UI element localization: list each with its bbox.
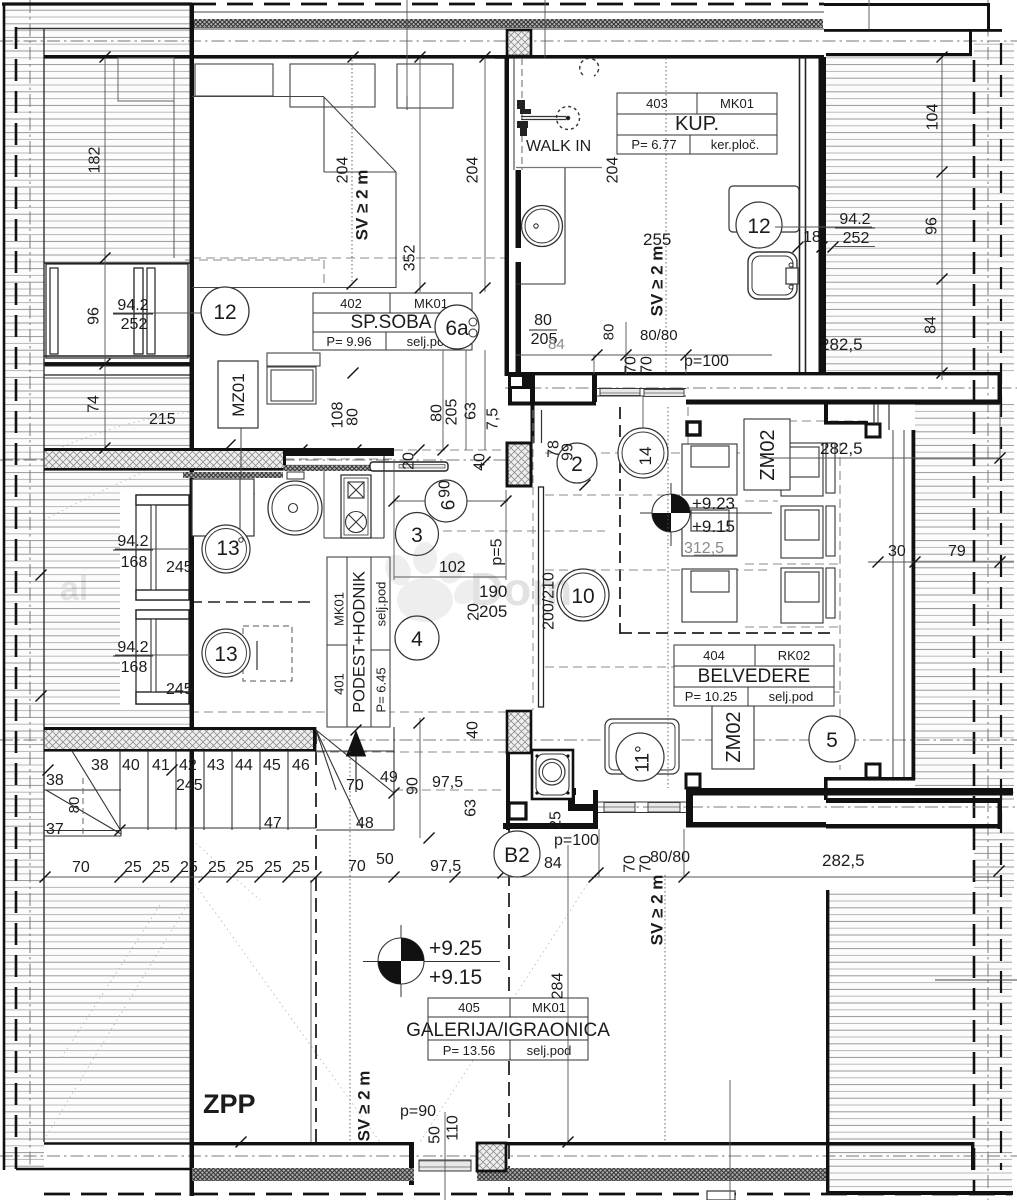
svg-text:84: 84 <box>922 316 939 334</box>
svg-text:45: 45 <box>263 757 281 774</box>
svg-text:11°: 11° <box>633 745 654 772</box>
svg-text:40: 40 <box>471 453 488 471</box>
svg-text:352: 352 <box>401 245 418 272</box>
svg-text:P= 9.96: P= 9.96 <box>326 334 371 349</box>
svg-text:SV ≥ 2 m: SV ≥ 2 m <box>647 875 666 946</box>
svg-text:48: 48 <box>356 815 374 832</box>
svg-text:40: 40 <box>122 757 140 774</box>
svg-text:P= 10.25: P= 10.25 <box>685 689 737 704</box>
svg-text:25: 25 <box>124 859 142 876</box>
svg-text:204: 204 <box>334 157 351 184</box>
svg-text:13: 13 <box>214 643 237 666</box>
svg-text:GALERIJA/IGRAONICA: GALERIJA/IGRAONICA <box>406 1020 610 1041</box>
svg-text:10: 10 <box>571 585 594 608</box>
svg-text:204: 204 <box>604 157 621 184</box>
svg-text:84: 84 <box>548 336 565 353</box>
svg-text:90: 90 <box>404 777 421 795</box>
svg-text:20: 20 <box>400 452 417 470</box>
svg-text:70: 70 <box>638 356 655 374</box>
svg-text:282,5: 282,5 <box>822 851 865 870</box>
svg-text:168: 168 <box>121 659 148 676</box>
svg-text:P= 13.56: P= 13.56 <box>443 1043 495 1058</box>
svg-text:245: 245 <box>166 559 193 576</box>
svg-text:215: 215 <box>149 411 176 428</box>
svg-text:404: 404 <box>703 648 725 663</box>
svg-text:80/80: 80/80 <box>650 849 690 866</box>
svg-text:63: 63 <box>462 799 479 817</box>
svg-text:110: 110 <box>444 1115 461 1141</box>
svg-text:205: 205 <box>443 399 460 426</box>
svg-text:252: 252 <box>121 316 148 333</box>
svg-text:245: 245 <box>166 681 193 698</box>
svg-text:182: 182 <box>86 147 103 174</box>
svg-text:14: 14 <box>636 447 655 466</box>
svg-text:80: 80 <box>66 797 83 814</box>
svg-text:25: 25 <box>292 859 310 876</box>
svg-text:402: 402 <box>340 296 362 311</box>
svg-text:282,5: 282,5 <box>820 335 863 354</box>
svg-text:5: 5 <box>826 729 838 752</box>
svg-text:7,5: 7,5 <box>484 408 501 430</box>
svg-text:25: 25 <box>264 859 282 876</box>
svg-text:BELVEDERE: BELVEDERE <box>698 666 811 687</box>
svg-text:401: 401 <box>331 673 346 695</box>
svg-text:80: 80 <box>600 324 617 341</box>
svg-text:+9.23: +9.23 <box>692 494 735 513</box>
svg-text:SP.SOBA: SP.SOBA <box>351 312 432 333</box>
svg-text:p=100: p=100 <box>554 832 599 849</box>
svg-text:90: 90 <box>436 480 453 498</box>
svg-text:ZM02: ZM02 <box>723 711 745 762</box>
svg-text:25: 25 <box>180 859 198 876</box>
svg-text:43: 43 <box>207 757 225 774</box>
svg-text:MK01: MK01 <box>414 296 448 311</box>
svg-text:P= 6.45: P= 6.45 <box>373 667 388 712</box>
svg-text:70: 70 <box>346 777 364 794</box>
svg-text:SV ≥ 2 m: SV ≥ 2 m <box>647 246 666 317</box>
svg-text:284: 284 <box>549 973 566 1000</box>
svg-text:p=5: p=5 <box>488 538 505 565</box>
svg-text:70: 70 <box>348 858 366 875</box>
svg-text:80: 80 <box>344 408 361 426</box>
svg-text:MZ01: MZ01 <box>229 373 248 416</box>
svg-text:ZM02: ZM02 <box>757 429 779 480</box>
svg-text:6a: 6a <box>445 317 469 340</box>
svg-text:190: 190 <box>479 582 507 601</box>
svg-text:SV ≥ 2 m: SV ≥ 2 m <box>352 170 371 241</box>
svg-text:selj.pod: selj.pod <box>527 1043 572 1058</box>
svg-text:40: 40 <box>464 721 481 739</box>
svg-text:12: 12 <box>213 301 236 324</box>
svg-text:47: 47 <box>264 815 282 832</box>
svg-text:74: 74 <box>85 395 102 413</box>
svg-text:50: 50 <box>426 1126 443 1144</box>
svg-text:50: 50 <box>376 851 394 868</box>
svg-text:al: al <box>60 570 88 608</box>
svg-text:MK01: MK01 <box>331 592 346 626</box>
svg-text:94.2: 94.2 <box>117 297 148 314</box>
svg-text:30: 30 <box>888 543 906 560</box>
svg-text:104: 104 <box>924 104 941 131</box>
svg-text:13: 13 <box>216 537 239 560</box>
svg-text:PODEST+HODNIK: PODEST+HODNIK <box>351 571 369 713</box>
svg-text:42: 42 <box>179 757 197 774</box>
svg-text:96: 96 <box>85 307 102 325</box>
svg-text:37: 37 <box>46 821 64 838</box>
svg-text:38: 38 <box>46 772 64 789</box>
svg-text:18: 18 <box>803 229 821 246</box>
svg-text:252: 252 <box>843 230 870 247</box>
svg-text:79: 79 <box>948 543 966 560</box>
svg-text:38: 38 <box>91 757 109 774</box>
svg-text:+9.15: +9.15 <box>692 517 735 536</box>
svg-text:+9.25: +9.25 <box>429 937 482 960</box>
svg-text:ZPP: ZPP <box>203 1089 256 1119</box>
svg-text:204: 204 <box>464 157 481 184</box>
svg-text:25: 25 <box>208 859 226 876</box>
svg-text:ker.ploč.: ker.ploč. <box>711 137 759 152</box>
svg-text:80/80: 80/80 <box>640 327 678 344</box>
svg-text:p=90: p=90 <box>400 1103 436 1120</box>
svg-text:41: 41 <box>152 757 170 774</box>
svg-text:405: 405 <box>458 1000 480 1015</box>
svg-text:6: 6 <box>439 500 460 511</box>
svg-text:4: 4 <box>411 628 423 651</box>
svg-text:MK01: MK01 <box>532 1000 566 1015</box>
svg-text:selj.pod: selj.pod <box>769 689 814 704</box>
svg-text:70: 70 <box>621 855 638 873</box>
svg-text:P= 6.77: P= 6.77 <box>631 137 676 152</box>
svg-text:97,5: 97,5 <box>432 774 463 791</box>
svg-text:p=100: p=100 <box>684 353 729 370</box>
svg-text:94.2: 94.2 <box>839 211 870 228</box>
svg-text:245: 245 <box>176 777 203 794</box>
svg-text:312,5: 312,5 <box>684 540 724 557</box>
svg-text:70: 70 <box>622 356 639 374</box>
svg-text:KUP.: KUP. <box>675 113 719 135</box>
svg-text:+9.15: +9.15 <box>429 966 482 989</box>
svg-text:94.2: 94.2 <box>117 639 148 656</box>
svg-text:46: 46 <box>292 757 310 774</box>
svg-text:WALK IN: WALK IN <box>526 138 591 155</box>
svg-text:RK02: RK02 <box>778 648 811 663</box>
svg-text:99: 99 <box>559 443 576 461</box>
svg-text:84: 84 <box>544 855 562 872</box>
svg-text:44: 44 <box>235 757 253 774</box>
svg-text:96: 96 <box>923 217 940 235</box>
svg-text:MK01: MK01 <box>720 96 754 111</box>
svg-text:25: 25 <box>236 859 254 876</box>
svg-text:205: 205 <box>479 602 507 621</box>
svg-text:80: 80 <box>534 312 552 329</box>
svg-text:selj.pod: selj.pod <box>373 582 388 627</box>
svg-text:B2: B2 <box>504 844 530 867</box>
svg-text:25: 25 <box>547 811 564 829</box>
svg-text:282,5: 282,5 <box>820 439 863 458</box>
svg-text:168: 168 <box>121 554 148 571</box>
svg-text:200/210: 200/210 <box>540 572 557 630</box>
svg-text:403: 403 <box>646 96 668 111</box>
svg-text:97,5: 97,5 <box>430 858 461 875</box>
svg-text:25: 25 <box>152 859 170 876</box>
svg-text:102: 102 <box>439 559 466 576</box>
svg-text:94.2: 94.2 <box>117 533 148 550</box>
svg-text:12: 12 <box>747 215 770 238</box>
svg-text:70: 70 <box>72 859 90 876</box>
svg-text:SV ≥ 2 m: SV ≥ 2 m <box>354 1071 373 1142</box>
svg-text:63: 63 <box>462 402 479 420</box>
svg-text:49: 49 <box>380 769 398 786</box>
